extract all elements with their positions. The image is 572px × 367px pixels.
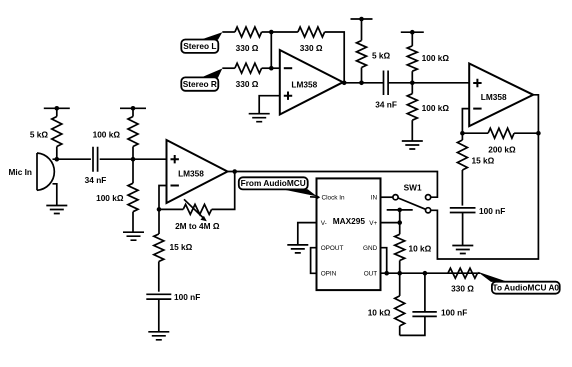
svg-text:5 kΩ: 5 kΩ [30, 130, 49, 140]
svg-text:2M to 4M Ω: 2M to 4M Ω [175, 221, 220, 231]
flag Stereo L [181, 40, 218, 53]
node U2 output [342, 81, 347, 86]
value label 100 kΩ upper left [93, 130, 121, 140]
pin label OPIN [321, 271, 337, 278]
svg-text:100 kΩ: 100 kΩ [96, 193, 124, 203]
value label 100 nF bottom [441, 308, 467, 318]
wire U2 + to ground [259, 96, 280, 114]
node U3 feedback junction [460, 131, 465, 136]
value label 100 nF right [479, 206, 505, 216]
resistor 100 kΩ (divider lower mid) [407, 83, 417, 141]
pin label OPOUT [321, 245, 344, 252]
value label 100 nF left [174, 292, 200, 302]
pennant Stereo L [201, 32, 223, 40]
resistor 15 kΩ (right) [457, 133, 467, 205]
svg-text:IN: IN [371, 195, 378, 202]
ground (U2 +) [249, 114, 270, 122]
svg-text:V-: V- [321, 220, 327, 227]
wire R to summing node [262, 31, 272, 33]
wire Stereo L lead [222, 31, 235, 33]
supply rail V+ (above R 100k left) [120, 106, 146, 111]
value label 330 Ω Stereo R [236, 79, 259, 89]
node cap-OUT [423, 271, 428, 276]
resistor 10 kΩ (lower) [395, 273, 405, 335]
node summing at U2 - [269, 66, 274, 71]
svg-text:Stereo L: Stereo L [183, 41, 216, 51]
value label 330 Ω feedback [300, 43, 323, 53]
wire summing node to U2 - [271, 67, 280, 69]
wire mic node to C 34nF [57, 158, 91, 160]
supply rail V+ (above R 5k mid) [351, 17, 373, 22]
svg-text:330 Ω: 330 Ω [236, 79, 259, 89]
pin label Clock In [322, 195, 346, 202]
svg-text:MAX295: MAX295 [333, 216, 366, 226]
label Mic In [8, 167, 32, 177]
svg-text:100 nF: 100 nF [174, 292, 200, 302]
svg-text:LM358: LM358 [178, 169, 204, 179]
ground (left RC) [148, 332, 169, 340]
switch SW1 throw B contact [426, 208, 431, 213]
capacitor 100 nF (bottom) [412, 312, 436, 317]
resistor 10 kΩ (upper) [395, 234, 405, 273]
node U1 output [232, 169, 237, 174]
switch SW1 throw A contact [426, 195, 431, 200]
capacitor 100 nF (right) [450, 208, 476, 213]
wire divider node to U1 + [133, 158, 167, 160]
ground (left divider) [123, 232, 144, 240]
svg-text:V+: V+ [369, 220, 377, 227]
svg-text:Mic In: Mic In [8, 167, 32, 177]
wire pot right lead up to U1 output [212, 172, 235, 210]
switch SW1 pole contact [393, 195, 398, 200]
wire feedback to U2 output [325, 32, 345, 83]
switch SW1 blade [398, 198, 425, 209]
wire divider mid to U3 + [412, 82, 469, 84]
op-amp U1 LM358 (mic preamp) [167, 140, 228, 203]
svg-text:15 kΩ: 15 kΩ [170, 242, 193, 252]
wire U1 - input down [159, 186, 167, 210]
ground (V-) [287, 245, 308, 253]
svg-text:100 nF: 100 nF [441, 308, 467, 318]
svg-text:10 kΩ: 10 kΩ [368, 308, 391, 318]
node summing top [269, 30, 274, 35]
wire GND pin wrap [381, 248, 387, 274]
svg-text:10 kΩ: 10 kΩ [409, 244, 432, 254]
value label 10 kΩ upper [409, 244, 432, 254]
svg-text:From AudioMCU: From AudioMCU [241, 178, 306, 188]
wire cap to ground right [462, 213, 464, 246]
op-amp U3 LM358 (output amp) [469, 64, 533, 127]
wire pot left lead [159, 208, 183, 210]
svg-text:330 Ω: 330 Ω [451, 284, 474, 294]
ground (right RC) [452, 246, 473, 254]
value label 200 kΩ [488, 145, 516, 155]
svg-text:Clock In: Clock In [322, 195, 346, 202]
svg-text:SW1: SW1 [404, 183, 422, 193]
node U1 feedback junction [157, 207, 162, 212]
value label 34 nF mid [375, 100, 397, 110]
wire U3 - input down [462, 109, 469, 134]
value label 5 kΩ mid [372, 51, 391, 61]
resistor 330 Ω (U2 feedback) [298, 27, 325, 37]
ground (mid divider) [402, 141, 423, 149]
flag To AudioMCU A0 [492, 282, 560, 294]
wire Stereo R lead [222, 67, 235, 69]
node 10k-OUT [397, 271, 402, 276]
svg-text:15 kΩ: 15 kΩ [472, 156, 495, 166]
pin label V+ [369, 220, 377, 227]
wire 200k right lead [514, 132, 538, 134]
wire OPOUT to OPIN loop [311, 248, 317, 274]
wire cap top to OUT [424, 273, 426, 312]
wire IN pin to SW1 pole [381, 196, 393, 198]
svg-text:200 kΩ: 200 kΩ [488, 145, 516, 155]
resistor 100 kΩ (divider upper left) [128, 108, 138, 159]
wire bottom RC loop [400, 316, 425, 335]
resistor 100 kΩ (divider upper mid) [407, 32, 417, 83]
wire node to C 34nF mid [362, 82, 384, 84]
resistor 100 kΩ (divider lower left) [128, 159, 138, 232]
wire summing vertical [270, 32, 272, 68]
value label 5 kΩ [30, 130, 49, 140]
value label 330 Ω output [451, 284, 474, 294]
resistor 15 kΩ (left) [154, 209, 164, 291]
svg-text:LM358: LM358 [481, 92, 507, 102]
node mid highpass [359, 81, 364, 86]
value label 2M to 4M Ω [175, 221, 220, 231]
node V+ junction [397, 220, 402, 225]
resistor 200 kΩ (U3 feedback) [488, 128, 514, 138]
pin label GND [363, 245, 378, 252]
wire OUT pin east [381, 272, 481, 274]
value label 15 kΩ left [170, 242, 193, 252]
node divider mid [410, 81, 415, 86]
svg-text:34 nF: 34 nF [375, 100, 397, 110]
capacitor 34 nF (mid coupling) [384, 71, 389, 96]
resistor 330 Ω (Stereo R) [235, 63, 262, 73]
svg-text:34 nF: 34 nF [85, 175, 107, 185]
op-amp U2 LM358 (stereo mixer) [280, 50, 343, 115]
wire rail to node [399, 210, 401, 234]
flag Stereo R [181, 77, 218, 90]
resistor 330 Ω (output) [448, 268, 478, 278]
pennant From AudioMCU [282, 189, 317, 196]
svg-text:GND: GND [363, 245, 378, 252]
value label 100 kΩ upper mid [422, 53, 450, 63]
svg-text:330 Ω: 330 Ω [236, 43, 259, 53]
node divider left [131, 157, 136, 162]
value label 10 kΩ lower [368, 308, 391, 318]
wire cap to ground left [158, 299, 160, 332]
svg-text:Stereo R: Stereo R [183, 79, 217, 89]
resistor 5 kΩ (mic bias) [52, 108, 62, 159]
wire C to divider node mid [388, 82, 412, 84]
wire U1 output to SW1 throw [228, 172, 438, 198]
pennant Stereo R [201, 69, 223, 78]
pin label IN [371, 195, 378, 202]
svg-text:OUT: OUT [364, 271, 378, 278]
supply rail V+ (above R 100k mid) [401, 30, 424, 35]
resistor 5 kΩ (mid) [357, 19, 367, 83]
svg-text:OPOUT: OPOUT [321, 245, 344, 252]
pin label OUT [364, 271, 378, 278]
capacitor 100 nF (left) [146, 294, 171, 299]
svg-text:100 nF: 100 nF [479, 206, 505, 216]
svg-text:100 kΩ: 100 kΩ [422, 103, 450, 113]
wire feedback top left [271, 31, 298, 33]
capacitor 34 nF (left coupling) [93, 147, 98, 172]
supply rail V+ (MAX295) [387, 208, 413, 213]
svg-text:100 kΩ: 100 kΩ [422, 53, 450, 63]
potentiometer 2M to 4M Ω (gain) [183, 199, 211, 221]
pennant To AudioMCU A0 [477, 272, 507, 282]
filter U4 MAX295 body [317, 178, 381, 290]
wire R to summing node 2 [262, 67, 272, 69]
label SW1 [404, 183, 422, 193]
value label 100 kΩ lower left [96, 193, 124, 203]
value label 100 kΩ lower mid [422, 103, 450, 113]
node U3 output feedback tap [536, 131, 541, 136]
value label 15 kΩ right [472, 156, 495, 166]
svg-text:LM358: LM358 [291, 79, 317, 89]
wire V- to ground [298, 223, 317, 245]
value label 330 Ω Stereo L [236, 43, 259, 53]
flag From AudioMCU [239, 177, 308, 189]
svg-text:100 kΩ: 100 kΩ [93, 130, 121, 140]
svg-text:5 kΩ: 5 kΩ [372, 51, 391, 61]
wire U3 output loop [431, 95, 539, 259]
svg-text:To AudioMCU A0: To AudioMCU A0 [493, 282, 560, 292]
pin arrow Clock In [310, 195, 320, 200]
node mic/5k junction [55, 157, 60, 162]
wire 200k left lead [462, 132, 488, 134]
resistor 330 Ω (Stereo L) [235, 27, 262, 37]
value label 34 nF [85, 175, 107, 185]
wire V+ pin to rail [381, 222, 400, 224]
svg-text:330 Ω: 330 Ω [300, 43, 323, 53]
supply rail V+ (above R 5k left) [44, 106, 70, 111]
wire U2 output east [343, 82, 362, 84]
wire C 34nF to divider node [100, 158, 133, 160]
microphone Mic In [37, 153, 57, 206]
label MAX295 [333, 216, 366, 226]
ground (mic) [46, 206, 67, 214]
svg-text:OPIN: OPIN [321, 271, 337, 278]
node GND-OUT [384, 271, 389, 276]
pin label V- [321, 220, 327, 227]
